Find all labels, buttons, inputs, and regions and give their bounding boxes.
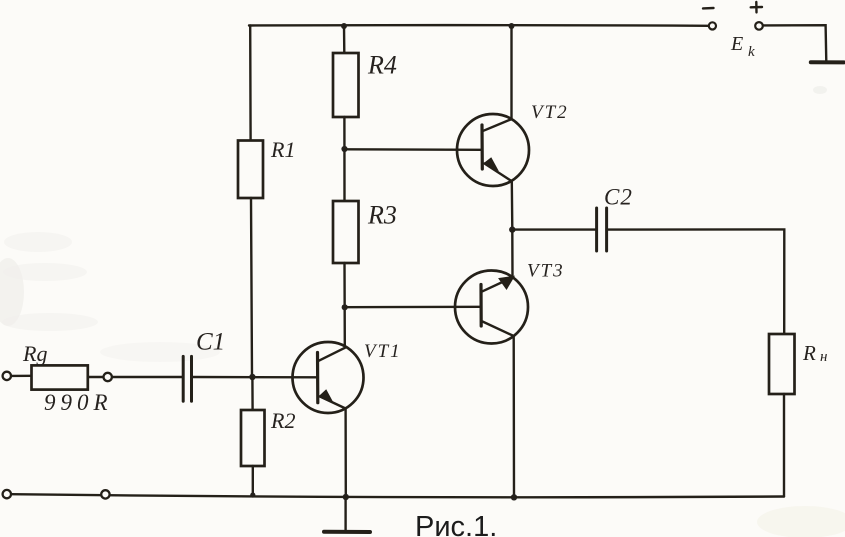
node junction R3/VT3 base/VT1 collector xyxy=(342,304,348,310)
wire VT1 emitter to rail xyxy=(344,409,347,497)
minus sign xyxy=(703,7,714,10)
capacitor C2 xyxy=(597,208,607,251)
terminal input top left xyxy=(3,372,11,380)
wire C1 to VT1 base xyxy=(192,376,318,379)
transistor VT2 xyxy=(457,114,529,186)
wire left vertical R1 branch upper xyxy=(249,26,252,141)
wire C2 left xyxy=(512,228,596,230)
wire R3 to VT1 collector node xyxy=(343,263,346,346)
transistor VT3 xyxy=(455,271,528,344)
terminal after Rg xyxy=(104,373,112,381)
wire VT3 emitter to rail xyxy=(513,336,516,497)
svg-text:990R: 990R xyxy=(44,390,113,415)
wire C2 right to Rn xyxy=(607,229,785,334)
node junction top-R4 xyxy=(341,23,347,29)
wire junction to R2 xyxy=(251,377,254,410)
svg-text:R: R xyxy=(802,341,816,365)
wire top rail to R4 xyxy=(343,26,346,54)
svg-text:R1: R1 xyxy=(270,137,295,162)
svg-text:VT1: VT1 xyxy=(364,341,402,362)
node junction top-VT2 collector xyxy=(509,23,515,29)
svg-text:R3: R3 xyxy=(367,201,397,230)
node junction R4/R3/VT2 base xyxy=(341,146,347,152)
wire R2 to bottom rail xyxy=(252,466,254,495)
resistor R2 xyxy=(241,410,265,466)
resistor Rn xyxy=(769,334,795,394)
wire node to VT3 collector arrow xyxy=(511,230,514,278)
svg-text:C2: C2 xyxy=(604,185,633,210)
wire plus terminal to ground xyxy=(763,25,826,62)
resistor R4 xyxy=(333,53,359,117)
ground top right xyxy=(811,60,844,64)
resistor R1 xyxy=(238,141,263,199)
wire terminal to Rg xyxy=(11,375,32,378)
wire R1 bottom to C1 junction xyxy=(251,198,252,377)
terminal Ek minus xyxy=(709,22,716,29)
node junction C1/R1/R2/VT1 base xyxy=(249,374,255,380)
wire VT2 emitter to C2 node xyxy=(511,181,514,230)
resistor Rg xyxy=(32,365,88,389)
svg-text:н: н xyxy=(820,349,827,365)
resistor R3 xyxy=(333,201,359,263)
wire VT2 base xyxy=(345,148,482,151)
svg-text:VT2: VT2 xyxy=(531,102,569,123)
svg-text:Rg: Rg xyxy=(22,341,47,366)
wire R4 to R3 xyxy=(343,117,346,201)
wire terminal to C1 xyxy=(112,376,183,378)
capacitor C1 xyxy=(183,356,191,401)
svg-text:Рис.1.: Рис.1. xyxy=(415,511,497,537)
terminal input bottom second xyxy=(101,490,109,498)
wire VT3 base xyxy=(345,306,481,309)
node junction R2-rail xyxy=(250,492,255,497)
plus sign xyxy=(751,2,762,12)
svg-text:R4: R4 xyxy=(367,51,397,80)
svg-text:E: E xyxy=(730,33,743,55)
wire Rn to bottom rail xyxy=(783,394,785,497)
wire Rg to terminal xyxy=(88,376,103,378)
svg-text:C1: C1 xyxy=(196,329,225,356)
terminal input bottom left xyxy=(3,490,11,498)
terminal Ek plus xyxy=(755,22,763,30)
wire top rail xyxy=(249,24,709,27)
node junction VT2 emitter/C2/VT3 xyxy=(509,226,515,232)
ground bottom xyxy=(324,497,370,532)
wire bottom rail xyxy=(11,494,784,497)
svg-text:k: k xyxy=(748,44,755,60)
svg-text:VT3: VT3 xyxy=(527,261,565,282)
wire VT2 collector to rail xyxy=(510,26,512,119)
node junction VT1 emitter-rail xyxy=(343,494,349,500)
transistor VT1 xyxy=(293,342,364,413)
svg-text:R2: R2 xyxy=(270,408,295,433)
node junction VT3 emitter-rail xyxy=(511,494,517,500)
